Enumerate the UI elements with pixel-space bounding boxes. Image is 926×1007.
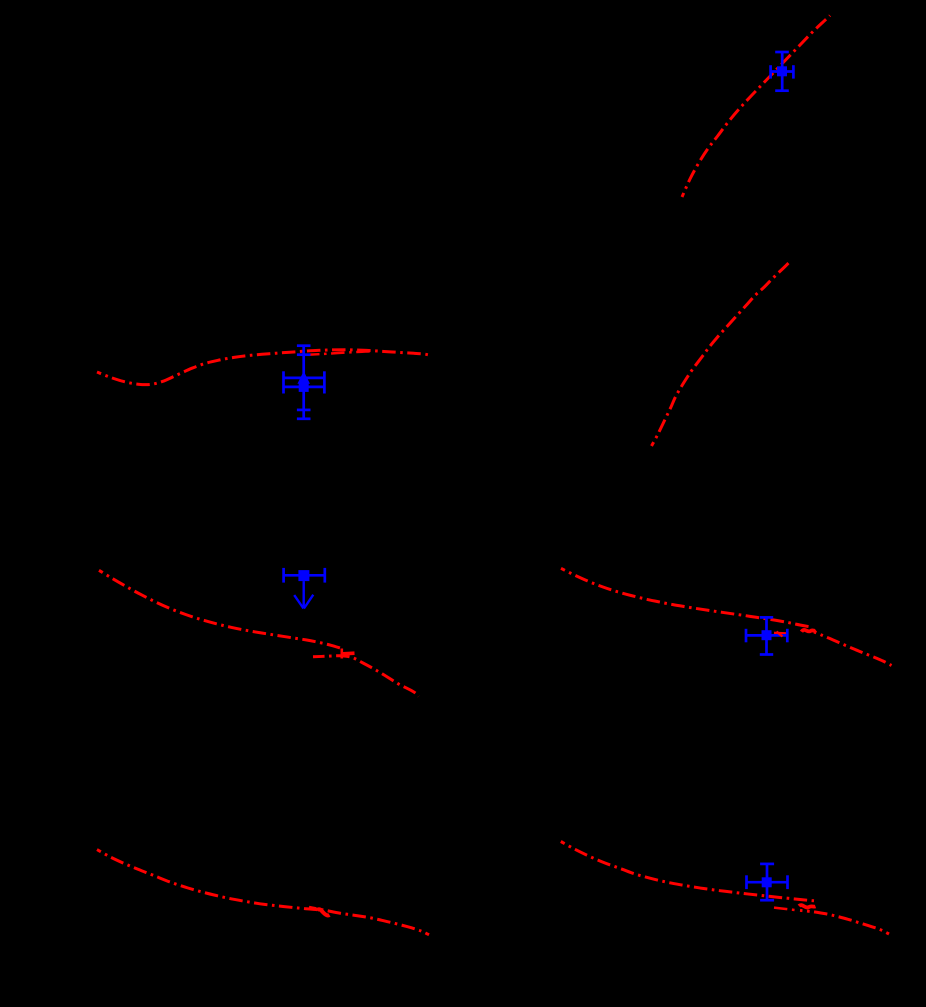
- red crossing-point mark, bottom-left panel: [317, 909, 330, 915]
- red dash-dot theory curve (upper branch), middle-right panel: [561, 568, 812, 627]
- red dash-dot short segment at crossing, middle-right panel: [774, 632, 790, 635]
- blue data point, top-right panel: y error bar: [781, 52, 784, 91]
- blue data point, bottom-right panel: y error bar: [766, 864, 769, 900]
- red dash-dot theory curve, top-right panel: [682, 16, 830, 198]
- blue data point, top-right panel: x error bar: [771, 70, 794, 73]
- blue data point, bottom-right panel: x error bar: [747, 881, 788, 884]
- blue square marker, middle-right panel: [762, 630, 772, 640]
- red dash-dot theory curve (lower branch), middle-right panel: [814, 632, 892, 666]
- blue data point, lower-middle-left panel: x error bar: [284, 574, 325, 577]
- red dash-dot short segment at crossing, bottom-right panel: [774, 908, 798, 911]
- blue upper-limit arrow, lower-middle-left panel: [303, 581, 305, 608]
- blue square marker, lower-middle-left panel: [298, 570, 309, 581]
- blue square marker, middle-left panel: [299, 382, 309, 392]
- blue data points (overlapping pair), middle-left panel: x error bars: [284, 377, 325, 380]
- red dash-dot theory curve (lower branch), bottom-right panel: [800, 910, 889, 934]
- red dash-dot theory curve (upper branch), lower-middle-left panel: [99, 570, 341, 648]
- red crossing-point mark, bottom-right panel: [799, 905, 816, 907]
- red dash-dot theory curve (lower branch), lower-middle-left panel: [313, 656, 419, 697]
- red dash-dot theory curve (lower branch), bottom-left panel: [309, 907, 429, 935]
- red crossing-point mark, middle-right panel: [802, 630, 817, 632]
- blue square marker, top-right panel: [777, 66, 787, 76]
- red dash-dot overlapping curve segment, middle-left panel: [310, 351, 370, 354]
- blue square marker, bottom-right panel: [762, 877, 772, 887]
- red dash-dot theory curve (upper branch), bottom-left panel: [97, 850, 318, 910]
- red crossing-point mark, lower-middle-left panel: [340, 649, 343, 659]
- red dash-dot theory curve, middle-left panel: [97, 350, 429, 385]
- blue data point, middle-right panel: x error bar: [746, 634, 787, 637]
- blue triangle marker, middle-left panel: [297, 371, 310, 384]
- red dash-dot theory curve, upper-middle-right panel: [652, 263, 789, 446]
- blue data points (overlapping pair), middle-left panel: y error bars: [302, 346, 305, 419]
- blue data point, middle-right panel: y error bar: [765, 617, 768, 654]
- red diagonal tick, middle-right panel: [777, 632, 783, 637]
- red dash-dot theory curve (upper branch), bottom-right panel: [561, 842, 814, 901]
